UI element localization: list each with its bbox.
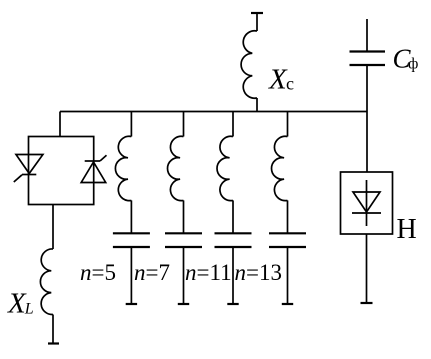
wire L13 to C13	[287, 200, 289, 233]
wire L5 to C5	[130, 200, 132, 233]
wire load box to terminal	[366, 234, 368, 303]
wire C7 to terminal	[183, 247, 185, 304]
capacitor C7	[165, 233, 202, 247]
filter branch n=7 : wire from bus	[183, 112, 185, 137]
main bus wire	[60, 111, 367, 113]
reactor XL	[40, 249, 53, 315]
svg-text:n=7: n=7	[134, 260, 170, 285]
wire bus to thyristor box	[59, 112, 61, 137]
thyristor VS2 (right, pointing up)	[81, 162, 106, 183]
ground terminal n=7	[178, 303, 189, 305]
wire L7 to C7	[183, 200, 185, 233]
ground terminal n=5	[126, 303, 137, 305]
svg-text:n=11: n=11	[185, 260, 232, 285]
diode inside load box	[366, 180, 368, 226]
wire C11 to terminal	[232, 247, 234, 304]
inductor L5	[115, 136, 131, 200]
wire Cf to load box	[366, 65, 368, 172]
capacitor C13	[269, 233, 306, 247]
svg-text:L: L	[24, 301, 34, 318]
wire XL to ground terminal	[52, 315, 54, 344]
wire from top terminal to Xc	[256, 13, 258, 31]
svg-text:ф: ф	[408, 56, 418, 73]
ground terminal of load branch	[361, 302, 373, 304]
wire Xc to bus	[256, 98, 258, 112]
filter branch n=13 : wire from bus	[287, 112, 289, 137]
svg-text:c: c	[286, 74, 294, 94]
inductor L11	[217, 136, 233, 200]
wire box to XL	[52, 205, 54, 250]
svg-text:n=13: n=13	[235, 260, 282, 285]
reactor Xc	[241, 31, 257, 98]
filter branch n=11 : wire from bus	[232, 112, 234, 137]
top terminal of Xc branch	[251, 12, 263, 14]
load box H	[341, 172, 393, 234]
capacitor C11	[215, 233, 252, 247]
wire C13 to terminal	[287, 247, 289, 304]
ground terminal of XL branch	[48, 342, 59, 344]
svg-text:X: X	[268, 64, 288, 96]
capacitor Cf	[350, 52, 386, 66]
ground terminal n=11	[227, 303, 238, 305]
capacitor C5	[113, 233, 150, 247]
svg-text:n=5: n=5	[80, 260, 116, 285]
thyristor VS1 (left, pointing down)	[16, 155, 43, 174]
filter branch n=5 : wire from bus	[130, 112, 132, 137]
inductor L7	[168, 136, 184, 200]
thyristor box	[29, 137, 94, 205]
ground terminal n=13	[282, 303, 293, 305]
wire C5 to terminal	[130, 247, 132, 304]
wire top of Cf branch	[366, 19, 368, 52]
wire L11 to C11	[232, 200, 234, 233]
svg-text:Н: Н	[397, 214, 417, 245]
inductor L13	[272, 136, 288, 200]
